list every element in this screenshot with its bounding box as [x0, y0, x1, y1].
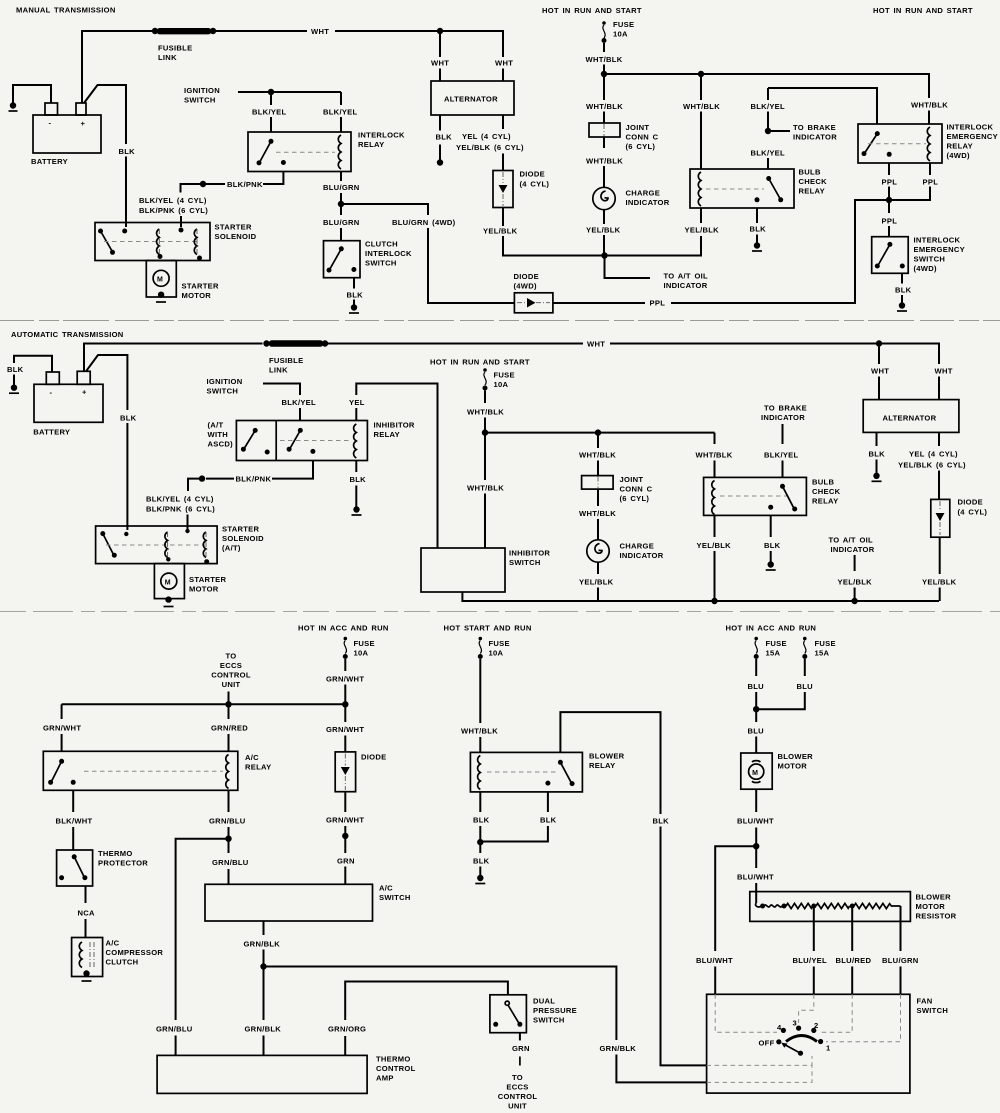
wire GRN/BLK down to thermo amp [263, 967, 265, 1021]
svg-text:BLK: BLK [350, 475, 367, 484]
wire BLK/YEL left [270, 92, 272, 105]
wire WHT right drop [502, 69, 504, 82]
svg-text:WHT/BLK: WHT/BLK [586, 55, 623, 64]
wire blower relay top contact to fan switch BLK [560, 712, 660, 814]
svg-text:YEL/BLK (6 CYL): YEL/BLK (6 CYL) [898, 461, 966, 470]
wire interlock emergency switch BLK to ground [901, 273, 903, 283]
wire bus HOT RUN manual [604, 74, 929, 98]
svg-text:SWITCH: SWITCH [207, 387, 239, 396]
svg-text:UNIT: UNIT [222, 680, 241, 689]
wire WHT/BLK to bulb check relay [700, 74, 702, 100]
svg-text:INTERLOCK: INTERLOCK [358, 131, 405, 140]
svg-text:GRN: GRN [337, 857, 355, 866]
wire BLK to starter solenoid [125, 157, 127, 228]
wire BLU left fuse [755, 659, 757, 676]
wire battery negative to ground (auto) [14, 356, 52, 372]
ground (clutch switch) [351, 304, 357, 310]
diode D4 (A/C) [335, 752, 386, 792]
wire battery positive diagonal to BLK [84, 85, 126, 144]
svg-text:JOINT: JOINT [626, 123, 650, 132]
svg-text:IGNITION: IGNITION [207, 377, 243, 386]
wire BLU/RED [851, 908, 853, 951]
ground (inhibitor relay) [353, 506, 359, 512]
svg-text:WHT: WHT [935, 367, 953, 376]
svg-text:HOT START AND RUN: HOT START AND RUN [444, 624, 532, 633]
svg-text:SWITCH: SWITCH [184, 96, 216, 105]
svg-text:BULB: BULB [812, 478, 834, 487]
svg-text:SWITCH: SWITCH [914, 255, 946, 264]
svg-text:BLK/YEL (4 CYL): BLK/YEL (4 CYL) [146, 495, 214, 504]
wire WHT top [216, 30, 307, 32]
svg-text:(4 CYL): (4 CYL) [520, 180, 550, 189]
rotary fan selector [786, 1036, 817, 1042]
svg-text:FUSE: FUSE [489, 639, 510, 648]
node WHT alternator junction (auto) [876, 340, 882, 346]
wire diode YEL/BLK (auto) [939, 537, 941, 574]
svg-text:WHT/BLK: WHT/BLK [696, 451, 733, 460]
wire BLU/WHT below motor [755, 789, 757, 812]
svg-text:+: + [82, 388, 87, 397]
svg-text:INHIBITOR: INHIBITOR [509, 549, 550, 558]
svg-text:HOT IN RUN AND START: HOT IN RUN AND START [873, 6, 973, 15]
svg-text:(4WD): (4WD) [514, 282, 538, 291]
wire ignition to BLK/YEL [263, 384, 300, 396]
wire charge indicator YEL/BLK down [603, 210, 605, 224]
fuses F5 F6 15A HOT IN ACC AND RUN [726, 624, 836, 660]
svg-text:THERMO: THERMO [376, 1055, 411, 1064]
wire fuse WHT/BLK (auto) [484, 391, 486, 404]
svg-text:FUSE: FUSE [494, 371, 515, 380]
svg-text:CLUTCH: CLUTCH [106, 958, 139, 967]
thermo control amp [157, 1055, 415, 1094]
svg-text:(6 CYL): (6 CYL) [626, 142, 656, 151]
starter motor (auto) [154, 564, 226, 607]
svg-text:WHT: WHT [587, 340, 605, 349]
wire BLU/WHT to resistor [755, 846, 757, 868]
svg-text:YEL (4 CYL): YEL (4 CYL) [462, 132, 511, 141]
wire WHT/BLK down to inhibitor switch [484, 433, 486, 480]
svg-text:CHARGE: CHARGE [620, 542, 655, 551]
svg-text:10A: 10A [354, 649, 369, 658]
wire BLU right fuse [804, 659, 806, 676]
charge indicator lamp (manual) [593, 187, 670, 209]
svg-text:-: - [49, 119, 52, 128]
svg-text:BLK: BLK [869, 450, 886, 459]
ground (bulb check auto) [768, 561, 774, 567]
svg-text:CONTROL: CONTROL [498, 1092, 538, 1101]
wire joint conn branch [603, 74, 605, 100]
wire GRN/WHT to diode [344, 704, 346, 722]
node brake indicator tap [765, 128, 771, 134]
diode D2 (4WD) [514, 272, 553, 313]
svg-text:ALTERNATOR: ALTERNATOR [883, 414, 937, 423]
wire elbow to starter solenoid (auto) [188, 479, 202, 491]
inhibitor relay [236, 421, 415, 461]
clutch interlock switch [324, 240, 413, 278]
diode D1 (4 CYL) manual [493, 170, 549, 208]
svg-text:RELAY: RELAY [589, 761, 615, 770]
wire interlock relay to BLK/PNK [263, 172, 283, 185]
svg-text:CONN C: CONN C [620, 485, 653, 494]
svg-text:GRN/BLU: GRN/BLU [209, 817, 246, 826]
ground (battery auto) [11, 385, 17, 391]
svg-text:A/C: A/C [106, 939, 120, 948]
svg-text:HOT IN ACC AND RUN: HOT IN ACC AND RUN [298, 624, 389, 633]
svg-text:M: M [157, 277, 163, 284]
svg-text:GRN/BLK: GRN/BLK [600, 1044, 637, 1053]
svg-text:BLOWER: BLOWER [778, 752, 814, 761]
wire GRN to A/C switch [344, 836, 346, 853]
svg-text:GRN/ORG: GRN/ORG [328, 1025, 366, 1034]
svg-text:GRN/BLK: GRN/BLK [245, 1025, 282, 1034]
blower motor resistor [750, 892, 957, 922]
svg-text:BLK/YEL: BLK/YEL [252, 108, 287, 117]
svg-text:PPL: PPL [882, 178, 898, 187]
svg-text:A/C: A/C [245, 753, 259, 762]
svg-text:GRN/RED: GRN/RED [211, 724, 248, 733]
svg-text:BLK: BLK [119, 147, 136, 156]
wire to charge indicator [603, 137, 605, 148]
wire GRN/ORG thermo amp to dual pressure switch [344, 1036, 346, 1055]
svg-text:INDICATOR: INDICATOR [761, 413, 805, 422]
node BLK/PNK [200, 181, 206, 187]
fuse F4 10A HOT START AND RUN [444, 624, 532, 660]
svg-text:WHT/BLK: WHT/BLK [586, 157, 623, 166]
wire battery positive up to fusible link [82, 31, 157, 103]
svg-text:YEL: YEL [349, 398, 365, 407]
svg-text:WHT/BLK: WHT/BLK [461, 727, 498, 736]
wire GRN to ECCS (dashed) [519, 1033, 521, 1041]
fusible link (auto) [263, 340, 328, 374]
node A/T oil junction [851, 598, 857, 604]
svg-text:STARTER: STARTER [215, 223, 252, 232]
wire blower relay right BLK [547, 792, 549, 812]
battery (auto) [33, 371, 103, 436]
wire BLU/YEL [813, 908, 815, 951]
svg-text:YEL/BLK: YEL/BLK [586, 226, 621, 235]
ground (alternator manual) [437, 159, 443, 165]
svg-text:BLK: BLK [540, 816, 557, 825]
svg-text:HOT IN ACC AND RUN: HOT IN ACC AND RUN [726, 624, 817, 633]
svg-text:PPL: PPL [882, 217, 898, 226]
wire to charge indicator (auto) [597, 489, 599, 506]
svg-text:A/C: A/C [379, 884, 393, 893]
svg-text:YEL/BLK: YEL/BLK [579, 578, 614, 587]
svg-text:BATTERY: BATTERY [33, 428, 70, 437]
svg-text:DIODE: DIODE [520, 170, 545, 179]
wire BLK to ground [479, 842, 481, 853]
svg-text:GRN/BLK: GRN/BLK [244, 940, 281, 949]
svg-text:+: + [81, 119, 86, 128]
blower motor [741, 752, 813, 789]
wire GRN/WHT to A/C relay [61, 704, 63, 719]
wire clutch switch BLK ground [353, 278, 355, 289]
svg-text:-: - [50, 388, 53, 397]
svg-text:RELAY: RELAY [799, 187, 825, 196]
svg-text:CONN C: CONN C [626, 133, 659, 142]
starter motor (manual) [146, 261, 219, 303]
wire alternator YEL to diode [502, 115, 504, 129]
svg-text:CHARGE: CHARGE [626, 189, 661, 198]
svg-text:BLU/WHT: BLU/WHT [737, 873, 774, 882]
ground (bulb check manual) [754, 242, 760, 248]
svg-text:BLK/YEL: BLK/YEL [751, 149, 786, 158]
svg-text:THERMO: THERMO [98, 849, 133, 858]
svg-text:SOLENOID: SOLENOID [222, 534, 264, 543]
svg-text:(A/T: (A/T [208, 421, 224, 430]
svg-text:BLK/YEL: BLK/YEL [751, 102, 786, 111]
svg-text:BLK: BLK [7, 365, 24, 374]
joint connector C (auto) [582, 475, 653, 503]
svg-text:INTERLOCK: INTERLOCK [914, 236, 961, 245]
svg-text:BLK/WHT: BLK/WHT [56, 817, 93, 826]
alternator (auto) [863, 400, 959, 433]
svg-text:WHT/BLK: WHT/BLK [911, 101, 948, 110]
svg-text:INHIBITOR: INHIBITOR [374, 421, 415, 430]
wire A/C switch GRN/BLK out [263, 921, 265, 935]
wire alternator BLK ground (auto) [876, 432, 878, 446]
svg-text:UNIT: UNIT [508, 1102, 527, 1111]
svg-text:SWITCH: SWITCH [917, 1006, 949, 1015]
svg-text:10A: 10A [489, 649, 504, 658]
svg-text:GRN: GRN [512, 1044, 530, 1053]
svg-text:TO A/T OIL: TO A/T OIL [829, 536, 874, 545]
svg-text:BLU/GRN: BLU/GRN [323, 183, 360, 192]
svg-text:SOLENOID: SOLENOID [215, 232, 257, 241]
svg-text:SWITCH: SWITCH [379, 893, 411, 902]
wire ignition YEL branch [356, 384, 437, 549]
svg-text:BLK/PNK: BLK/PNK [227, 180, 263, 189]
svg-text:BLU/GRN: BLU/GRN [323, 218, 360, 227]
svg-text:(4WD): (4WD) [914, 264, 938, 273]
node GRN/BLK junction [260, 963, 266, 969]
svg-text:TO: TO [226, 652, 237, 661]
wire PPL line [553, 302, 645, 304]
svg-text:MOTOR: MOTOR [916, 902, 946, 911]
wire BLK/YEL brake indicator [768, 88, 877, 124]
ground (interlock emergency switch) [899, 302, 905, 308]
svg-text:WHT/BLK: WHT/BLK [579, 451, 616, 460]
svg-text:PROTECTOR: PROTECTOR [98, 859, 148, 868]
svg-text:15A: 15A [766, 649, 781, 658]
wire bulb check BLK to ground [756, 208, 758, 223]
svg-text:YEL/BLK (6 CYL): YEL/BLK (6 CYL) [456, 143, 524, 152]
svg-text:RELAY: RELAY [947, 142, 973, 151]
wire WHT/BLK right branch [714, 433, 716, 444]
svg-text:STARTER: STARTER [222, 525, 259, 534]
dual pressure switch [490, 995, 577, 1033]
svg-text:BLK: BLK [473, 857, 490, 866]
svg-text:DIODE: DIODE [514, 272, 539, 281]
wire WHT/BLK to blower relay [479, 659, 481, 723]
wire GRN/BLK bus to fan switch [264, 967, 617, 1041]
svg-text:FUSE: FUSE [613, 20, 634, 29]
wire BLK/YEL right [340, 92, 342, 105]
svg-text:WHT/BLK: WHT/BLK [467, 484, 504, 493]
starter solenoid (manual) [95, 223, 257, 261]
svg-text:GRN/WHT: GRN/WHT [326, 725, 364, 734]
node BLK junction [477, 839, 483, 845]
svg-text:TO A/T OIL: TO A/T OIL [664, 272, 709, 281]
svg-text:CONTROL: CONTROL [211, 671, 251, 680]
svg-text:BLU/RED: BLU/RED [836, 956, 872, 965]
svg-text:YEL/BLK: YEL/BLK [483, 227, 518, 236]
svg-text:MOTOR: MOTOR [189, 585, 219, 594]
divider line 1 [0, 320, 1000, 322]
ground (battery manual) [10, 102, 16, 108]
svg-text:WHT/BLK: WHT/BLK [467, 408, 504, 417]
svg-text:GRN/WHT: GRN/WHT [326, 816, 364, 825]
blower relay [470, 752, 624, 792]
svg-text:BLU: BLU [797, 682, 814, 691]
wire inhibitor switch to YEL/BLK bus [462, 592, 939, 601]
svg-text:DUAL: DUAL [533, 997, 555, 1006]
svg-text:CONTROL: CONTROL [376, 1064, 416, 1073]
wire PPL left [888, 163, 890, 175]
wire diode to YEL/BLK bus [502, 208, 504, 227]
svg-text:(4 CYL): (4 CYL) [958, 508, 988, 517]
svg-text:TO BRAKE: TO BRAKE [793, 123, 836, 132]
wire alternator BLK to ground [439, 115, 441, 131]
svg-text:BLK/YEL (4 CYL): BLK/YEL (4 CYL) [139, 196, 207, 205]
node junction WHT/alternator [437, 28, 443, 34]
node YEL/BLK junction [601, 252, 607, 258]
svg-text:BLK/PNK (6 CYL): BLK/PNK (6 CYL) [146, 505, 215, 514]
wire GRN/WHT bus [62, 703, 346, 705]
svg-text:PRESSURE: PRESSURE [533, 1006, 577, 1015]
svg-text:2: 2 [814, 1021, 819, 1030]
bulb check relay (auto) [704, 477, 841, 515]
svg-text:AMP: AMP [376, 1074, 394, 1083]
svg-text:FUSIBLE: FUSIBLE [269, 356, 303, 365]
svg-text:HOT IN RUN AND START: HOT IN RUN AND START [542, 6, 642, 15]
wire joint conn C (auto) [597, 433, 599, 448]
fuse F3 10A HOT IN ACC AND RUN [298, 624, 389, 660]
svg-text:BLU/GRN: BLU/GRN [882, 956, 919, 965]
wire fuse down WHT/BLK [603, 43, 605, 52]
svg-text:LINK: LINK [158, 53, 177, 62]
wire battery negative to ground [13, 85, 51, 103]
wire YEL/BLK bus to bulb check [605, 236, 702, 256]
svg-text:ASCD): ASCD) [208, 440, 234, 449]
fuse F2 10A (auto) [430, 358, 530, 391]
node GRN/BLU junction [225, 836, 231, 842]
svg-text:STARTER: STARTER [189, 575, 226, 584]
svg-text:BLOWER: BLOWER [589, 752, 625, 761]
svg-text:FUSE: FUSE [354, 639, 375, 648]
battery (manual) [31, 103, 101, 166]
wire BLU/GRN [900, 906, 902, 951]
svg-text:10A: 10A [613, 30, 628, 39]
A/C switch [205, 884, 411, 922]
svg-text:RELAY: RELAY [245, 763, 271, 772]
svg-text:WHT: WHT [495, 59, 513, 68]
svg-text:MANUAL TRANSMISSION: MANUAL TRANSMISSION [16, 6, 116, 15]
svg-text:YEL/BLK: YEL/BLK [685, 226, 720, 235]
wire BLK/PNK elbow to starter solenoid [181, 184, 204, 193]
svg-text:MOTOR: MOTOR [778, 762, 808, 771]
wire BLK/WHT to thermo protector [72, 790, 74, 812]
alternator (manual) [431, 81, 514, 115]
wire GRN/WHT below diode [344, 792, 346, 812]
svg-text:BLK: BLK [895, 286, 912, 295]
charge indicator lamp (auto) [587, 540, 664, 562]
svg-text:BLU/GRN (4WD): BLU/GRN (4WD) [392, 218, 456, 227]
wire PPL branch to diode 4WD line [852, 200, 889, 303]
svg-text:BLK/YEL: BLK/YEL [323, 108, 358, 117]
wire to A/T oil indicator [605, 256, 651, 279]
svg-text:NCA: NCA [78, 909, 96, 918]
svg-text:WHT: WHT [871, 367, 889, 376]
svg-text:INDICATOR: INDICATOR [626, 198, 670, 207]
svg-text:PPL: PPL [923, 178, 939, 187]
svg-text:WHT/BLK: WHT/BLK [579, 509, 616, 518]
svg-text:YEL/BLK: YEL/BLK [697, 541, 732, 550]
svg-text:WHT: WHT [311, 27, 329, 36]
svg-text:INDICATOR: INDICATOR [831, 545, 875, 554]
svg-text:INDICATOR: INDICATOR [664, 281, 708, 290]
svg-text:3: 3 [793, 1019, 798, 1028]
svg-text:LINK: LINK [269, 366, 288, 375]
fan switch [707, 994, 949, 1093]
wire battery positive up (auto) [84, 344, 263, 372]
wire NCA [85, 886, 87, 903]
svg-text:INTERLOCK: INTERLOCK [365, 249, 412, 258]
wire GRN/RED to A/C relay coil [228, 704, 230, 719]
svg-text:BLU: BLU [748, 682, 765, 691]
wire WHT to alternator (auto) [878, 344, 880, 365]
svg-text:DIODE: DIODE [958, 498, 983, 507]
inhibitor switch [421, 548, 550, 592]
node PPL junction [886, 197, 892, 203]
svg-text:FAN: FAN [917, 997, 933, 1006]
wire interlock relay coil BLU/GRN [340, 172, 342, 182]
wire battery diagonal BLK (auto) [86, 355, 127, 410]
svg-text:4: 4 [777, 1023, 782, 1032]
svg-text:RELAY: RELAY [812, 497, 838, 506]
wire ECCS to bus [228, 692, 230, 705]
svg-text:BLK: BLK [750, 225, 767, 234]
svg-text:(6 CYL): (6 CYL) [620, 494, 650, 503]
interlock emergency relay (4WD) [858, 123, 998, 164]
svg-text:GRN/BLU: GRN/BLU [156, 1025, 193, 1034]
node BLU/GRN junction [338, 201, 344, 207]
svg-text:WITH: WITH [208, 430, 229, 439]
wire BLU/GRN (4WD) branch [341, 204, 428, 215]
svg-text:GRN/WHT: GRN/WHT [43, 724, 81, 733]
svg-text:GRN/BLU: GRN/BLU [212, 858, 249, 867]
svg-text:15A: 15A [815, 649, 830, 658]
node BLK/PNK (auto) [199, 475, 205, 481]
interlock relay (manual) [248, 131, 405, 172]
svg-text:1: 1 [826, 1044, 831, 1053]
wire GRN/BLU branch to thermo amp [176, 839, 229, 1020]
svg-text:HOT IN RUN AND START: HOT IN RUN AND START [430, 358, 530, 367]
svg-text:SWITCH: SWITCH [533, 1016, 565, 1025]
svg-text:ALTERNATOR: ALTERNATOR [444, 95, 498, 104]
node BLU/WHT junction [753, 843, 759, 849]
ground (blower relay) [477, 875, 483, 881]
svg-text:BLOWER: BLOWER [916, 893, 952, 902]
svg-text:PPL: PPL [650, 299, 666, 308]
svg-text:BLU: BLU [748, 727, 765, 736]
svg-text:BLU/YEL: BLU/YEL [793, 956, 828, 965]
svg-text:BLK: BLK [347, 291, 364, 300]
wire BLU to blower motor [755, 709, 757, 722]
wire inhibitor relay coil BLK ground [355, 461, 357, 473]
wire charge YEL/BLK (auto) [597, 562, 599, 574]
wire ignition switch line [238, 91, 341, 93]
